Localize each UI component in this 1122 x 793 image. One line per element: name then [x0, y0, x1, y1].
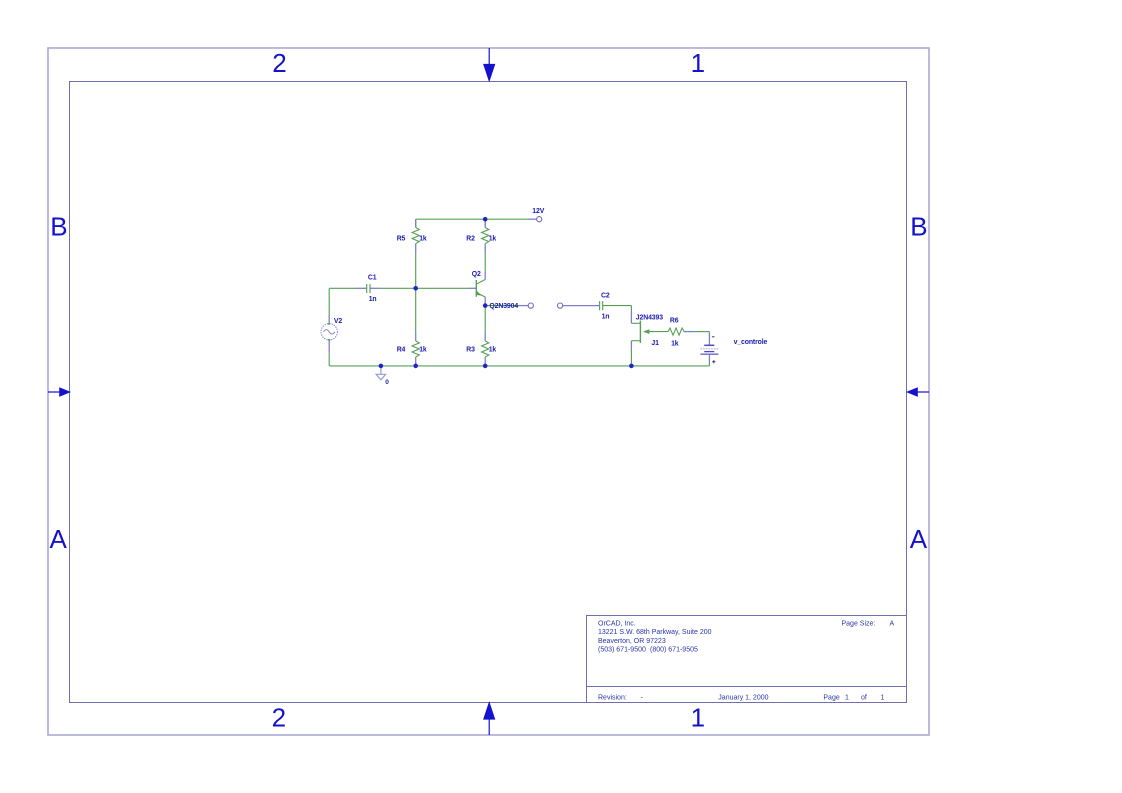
svg-text:1n: 1n [602, 313, 610, 320]
svg-text:C2: C2 [601, 293, 610, 300]
svg-text:V2: V2 [334, 318, 342, 325]
svg-text:1: 1 [691, 702, 705, 732]
svg-text:A: A [890, 621, 895, 628]
svg-text:Page: Page [823, 695, 839, 702]
svg-text:R6: R6 [670, 318, 679, 325]
svg-text:A: A [910, 524, 928, 554]
svg-text:1k: 1k [489, 347, 497, 354]
svg-text:-: - [641, 695, 644, 702]
svg-text:12V: 12V [532, 208, 544, 215]
svg-text:of: of [861, 695, 867, 702]
svg-text:A: A [50, 524, 68, 554]
svg-text:1k: 1k [419, 347, 427, 354]
svg-text:(503) 671-9500: (503) 671-9500 [598, 646, 646, 653]
svg-text:1k: 1k [671, 340, 679, 347]
svg-text:C1: C1 [368, 274, 377, 281]
svg-text:B: B [910, 211, 927, 241]
svg-text:1: 1 [691, 48, 705, 78]
svg-text:J2N4393: J2N4393 [636, 315, 663, 322]
svg-text:0: 0 [385, 379, 389, 386]
svg-text:Beaverton, OR 97223: Beaverton, OR 97223 [598, 638, 666, 645]
svg-text:1: 1 [845, 695, 849, 702]
svg-text:2: 2 [272, 702, 286, 732]
svg-text:2: 2 [272, 48, 286, 78]
svg-text:J1: J1 [651, 340, 659, 347]
svg-text:(800) 671-9505: (800) 671-9505 [650, 646, 698, 653]
svg-text:January 1, 2000: January 1, 2000 [718, 695, 768, 702]
svg-text:1k: 1k [419, 236, 427, 243]
svg-text:OrCAD, Inc.: OrCAD, Inc. [598, 621, 636, 628]
svg-text:Revision:: Revision: [598, 695, 627, 702]
svg-text:R4: R4 [397, 347, 406, 354]
svg-text:R5: R5 [397, 236, 406, 243]
svg-text:Q2: Q2 [472, 271, 481, 278]
svg-text:Q2N3904: Q2N3904 [489, 303, 518, 310]
svg-text:v_controle: v_controle [734, 339, 768, 346]
svg-text:1: 1 [881, 695, 885, 702]
svg-text:R3: R3 [466, 347, 475, 354]
svg-text:B: B [50, 211, 67, 241]
svg-text:1n: 1n [369, 296, 377, 303]
svg-text:1k: 1k [489, 236, 497, 243]
svg-text:Page Size:: Page Size: [842, 621, 876, 628]
svg-text:R2: R2 [466, 236, 475, 243]
svg-text:13221 S.W. 68th Parkway, Suite: 13221 S.W. 68th Parkway, Suite 200 [598, 629, 712, 636]
